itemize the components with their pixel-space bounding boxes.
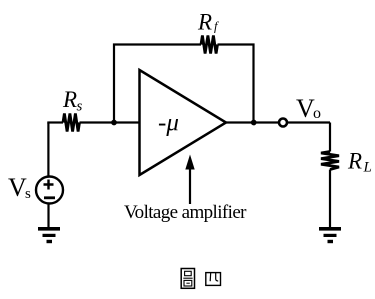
label figure caption 四 (drawn) <box>206 273 221 286</box>
wire: source top vertical <box>47 123 49 177</box>
node: open terminal circle Vo <box>279 119 287 127</box>
minus sign inside source <box>44 196 55 199</box>
wire: source bottom vertical to ground <box>47 204 49 229</box>
svg-text:s: s <box>25 186 31 202</box>
voltage source Vs circle <box>36 177 63 204</box>
svg-text:Voltage amplifier: Voltage amplifier <box>124 202 247 223</box>
wire: input horizontal from source corner to Rs <box>47 121 63 123</box>
wire: output from amplifier apex to Vo terminal <box>226 121 330 123</box>
ground (right, below RL) <box>319 227 341 243</box>
op-amp U1 (voltage amplifier triangle) <box>140 70 227 175</box>
ground (left, below Vs) <box>38 227 60 243</box>
node: junction dot at feedback tap (output) <box>251 120 257 126</box>
resistor RL <box>321 152 339 170</box>
svg-text:-μ: -μ <box>158 110 179 137</box>
svg-text:f: f <box>214 20 219 34</box>
svg-text:L: L <box>363 160 372 176</box>
wire: top horizontal right of Rf and feedback right vertical <box>218 45 254 124</box>
wire: feedback top-left vertical and top horizontal left of Rf <box>114 45 201 124</box>
svg-text:o: o <box>313 105 321 122</box>
svg-text:R: R <box>347 149 362 174</box>
node: junction dot at feedback tap (input) <box>111 120 117 126</box>
svg-text:R: R <box>62 87 77 112</box>
resistor Rf <box>201 36 218 54</box>
resistor Rs <box>63 114 80 132</box>
svg-text:s: s <box>77 99 83 115</box>
svg-text:R: R <box>197 10 212 35</box>
label figure caption 圖 (drawn) <box>181 269 194 289</box>
wire: from Rs to amplifier input <box>80 121 140 123</box>
wire: right vertical down to RL <box>329 123 331 152</box>
arrow pointing to amplifier <box>185 155 194 205</box>
plus sign inside source <box>44 180 54 190</box>
wire: RL to ground <box>329 170 331 229</box>
